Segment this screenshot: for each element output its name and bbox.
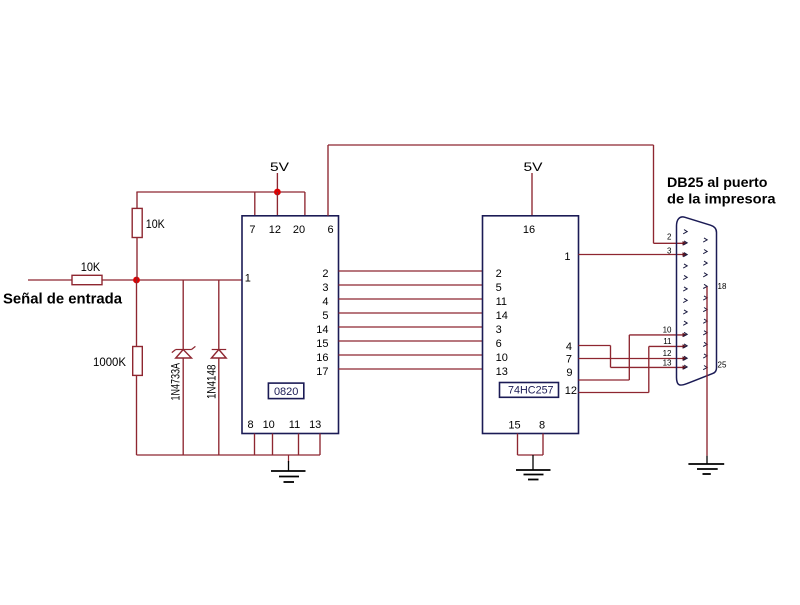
resistor R1 10K vertical body — [132, 208, 142, 237]
wire U2 pin 8 to ground — [542, 434, 544, 456]
svg-text:7: 7 — [566, 354, 572, 366]
svg-text:25: 25 — [718, 361, 727, 370]
wire stub to pin 20 — [304, 192, 306, 216]
wire stub to pin 12 — [276, 192, 278, 216]
node 5V junction dot — [274, 189, 281, 196]
svg-text:12: 12 — [565, 385, 577, 397]
svg-text:4: 4 — [322, 296, 328, 308]
wire U1 pin 11 to ground bus — [298, 434, 300, 456]
U2 part number box 74HC257 — [500, 383, 559, 398]
J1 pin 12 contact — [683, 356, 687, 360]
svg-text:13: 13 — [496, 366, 508, 378]
svg-text:10K: 10K — [81, 260, 101, 274]
svg-text:de la impresora: de la impresora — [667, 191, 776, 207]
wire U1 pin 13 to ground bus — [319, 434, 321, 456]
svg-text:6: 6 — [327, 224, 333, 236]
node A junction dot input — [133, 277, 140, 284]
wire ground bus bottom horizontal — [137, 454, 321, 456]
wire 5V stub to U2 pin 16 — [531, 173, 533, 216]
svg-text:10: 10 — [496, 352, 508, 364]
svg-text:17: 17 — [316, 366, 328, 378]
J1 pin 6 contact — [683, 287, 687, 291]
svg-text:13: 13 — [309, 419, 321, 431]
svg-text:2: 2 — [322, 268, 328, 280]
op-amp U2 74HC257 body — [483, 216, 579, 434]
op-amp U1 ADC0820 body — [242, 216, 339, 434]
svg-text:18: 18 — [718, 282, 727, 291]
ground symbol under J1 — [688, 456, 724, 474]
wire data bus U1 pin 2 to U2 — [339, 270, 483, 272]
svg-text:5V: 5V — [524, 160, 543, 174]
wire R3 bottom to ground bus — [136, 375, 138, 455]
wire U2 pin 1 to DB25 pin 3 — [579, 252, 688, 256]
svg-text:14: 14 — [316, 324, 328, 336]
svg-text:74HC257: 74HC257 — [508, 385, 554, 397]
wire 5V stub 1 — [276, 173, 278, 192]
wire U2 pin 4 to DB25 pin 13 — [579, 346, 688, 370]
svg-text:12: 12 — [269, 224, 281, 236]
svg-text:1N4733A: 1N4733A — [168, 363, 182, 401]
wire data bus U1 pin 16 to U2 — [339, 354, 483, 356]
svg-text:3: 3 — [496, 324, 502, 336]
J1 pin 2 contact — [683, 241, 687, 245]
J1 pin 23 contact — [703, 342, 707, 346]
J1 pin 5 contact — [683, 275, 687, 279]
resistor R3 1000K body — [133, 347, 143, 376]
J1 pin 7 contact — [683, 298, 687, 302]
J1 pin 17 contact — [703, 273, 707, 277]
svg-text:1000K: 1000K — [93, 355, 126, 369]
wire data bus U1 pin 4 to U2 — [339, 298, 483, 300]
svg-text:11: 11 — [289, 419, 300, 431]
svg-text:20: 20 — [293, 224, 305, 236]
svg-text:5V: 5V — [270, 160, 289, 174]
svg-text:14: 14 — [496, 310, 508, 322]
ground symbol under U2 — [516, 455, 551, 480]
J1 pin 24 contact — [703, 354, 707, 358]
wire data bus U1 pin 5 to U2 — [339, 312, 483, 314]
svg-text:12: 12 — [663, 349, 672, 358]
svg-text:10: 10 — [263, 419, 275, 431]
svg-text:10K: 10K — [146, 217, 165, 231]
wire U1 pin 10 to ground bus — [272, 434, 274, 456]
wire vertical from junction up to R1 — [136, 238, 138, 281]
svg-text:1N4148: 1N4148 — [204, 364, 218, 399]
svg-text:16: 16 — [523, 224, 535, 236]
diode D2 1N4148 — [211, 280, 226, 455]
wire U2 pin 15 to ground — [517, 434, 519, 456]
zener diode D1 1N4733A — [172, 280, 196, 455]
wire data bus U1 pin 15 to U2 — [339, 340, 483, 342]
svg-text:6: 6 — [496, 338, 502, 350]
wire junction down to R3 — [136, 280, 138, 347]
wire data bus U1 pin 14 to U2 — [339, 326, 483, 328]
J1 pin 20 contact — [703, 308, 707, 312]
J1 pin 8 contact — [683, 310, 687, 314]
wire U2 pin 7 to DB25 pin 12 — [579, 356, 688, 360]
svg-text:8: 8 — [539, 420, 545, 432]
wire stub to pin 7 — [254, 192, 256, 216]
J1 pin 16 contact — [703, 261, 707, 265]
svg-text:11: 11 — [663, 337, 672, 346]
J1 pin 15 contact — [703, 250, 707, 254]
svg-text:Señal de entrada: Señal de entrada — [3, 291, 123, 308]
svg-text:DB25 al puerto: DB25 al puerto — [667, 174, 768, 190]
svg-text:1: 1 — [245, 273, 251, 285]
svg-text:11: 11 — [496, 296, 507, 308]
wire 5V bus horizontal — [136, 191, 305, 193]
wire R1 top to 5V bus — [136, 192, 138, 208]
svg-text:2: 2 — [667, 233, 672, 242]
wire input signal horizontal — [28, 279, 242, 281]
connector J1 DB25 shell — [677, 217, 717, 385]
wire U1 pin 8 to ground bus — [254, 434, 256, 456]
svg-text:7: 7 — [249, 224, 255, 236]
J1 pin 13 contact — [683, 365, 687, 369]
J1 pin 22 contact — [703, 331, 707, 335]
svg-text:3: 3 — [667, 247, 672, 256]
svg-text:16: 16 — [316, 352, 328, 364]
svg-text:2: 2 — [496, 268, 502, 280]
svg-text:5: 5 — [322, 310, 328, 322]
resistor R2 10K horizontal body — [72, 275, 102, 284]
svg-text:10: 10 — [663, 326, 672, 335]
J1 pin 14 contact — [703, 238, 707, 242]
svg-text:8: 8 — [248, 419, 254, 431]
svg-text:15: 15 — [316, 338, 328, 350]
J1 pin 19 contact — [703, 296, 707, 300]
J1 pin 1 contact — [683, 230, 687, 234]
wire J1 pin 18 to ground — [706, 287, 708, 456]
J1 pin 9 contact — [683, 321, 687, 325]
svg-text:15: 15 — [508, 420, 520, 432]
J1 pin 18 contact — [703, 284, 707, 288]
J1 pin 25 contact — [703, 366, 707, 370]
svg-text:13: 13 — [663, 359, 672, 368]
wire U1 pin 6 up and across to DB25 pin 2 — [328, 145, 687, 246]
wire U2 pin 9 to DB25 pin 10 — [579, 333, 688, 380]
wire data bus U1 pin 17 to U2 — [339, 368, 483, 370]
wire data bus U1 pin 3 to U2 — [339, 284, 483, 286]
svg-text:3: 3 — [322, 282, 328, 294]
svg-text:4: 4 — [566, 341, 572, 353]
J1 pin 4 contact — [683, 264, 687, 268]
J1 pin 3 contact — [683, 253, 687, 257]
J1 pin 21 contact — [703, 319, 707, 323]
svg-text:9: 9 — [566, 367, 572, 379]
J1 pin 11 contact — [683, 344, 687, 348]
J1 pin 10 contact — [683, 332, 687, 336]
svg-text:1: 1 — [564, 251, 570, 263]
U1 part number box 0820 — [268, 383, 303, 399]
wire U2 pin 12 to DB25 pin 11 — [579, 344, 688, 392]
svg-text:0820: 0820 — [274, 386, 299, 398]
wire U2 ground bus — [518, 454, 544, 456]
svg-text:5: 5 — [496, 282, 502, 294]
ground symbol under U1 — [271, 455, 306, 482]
